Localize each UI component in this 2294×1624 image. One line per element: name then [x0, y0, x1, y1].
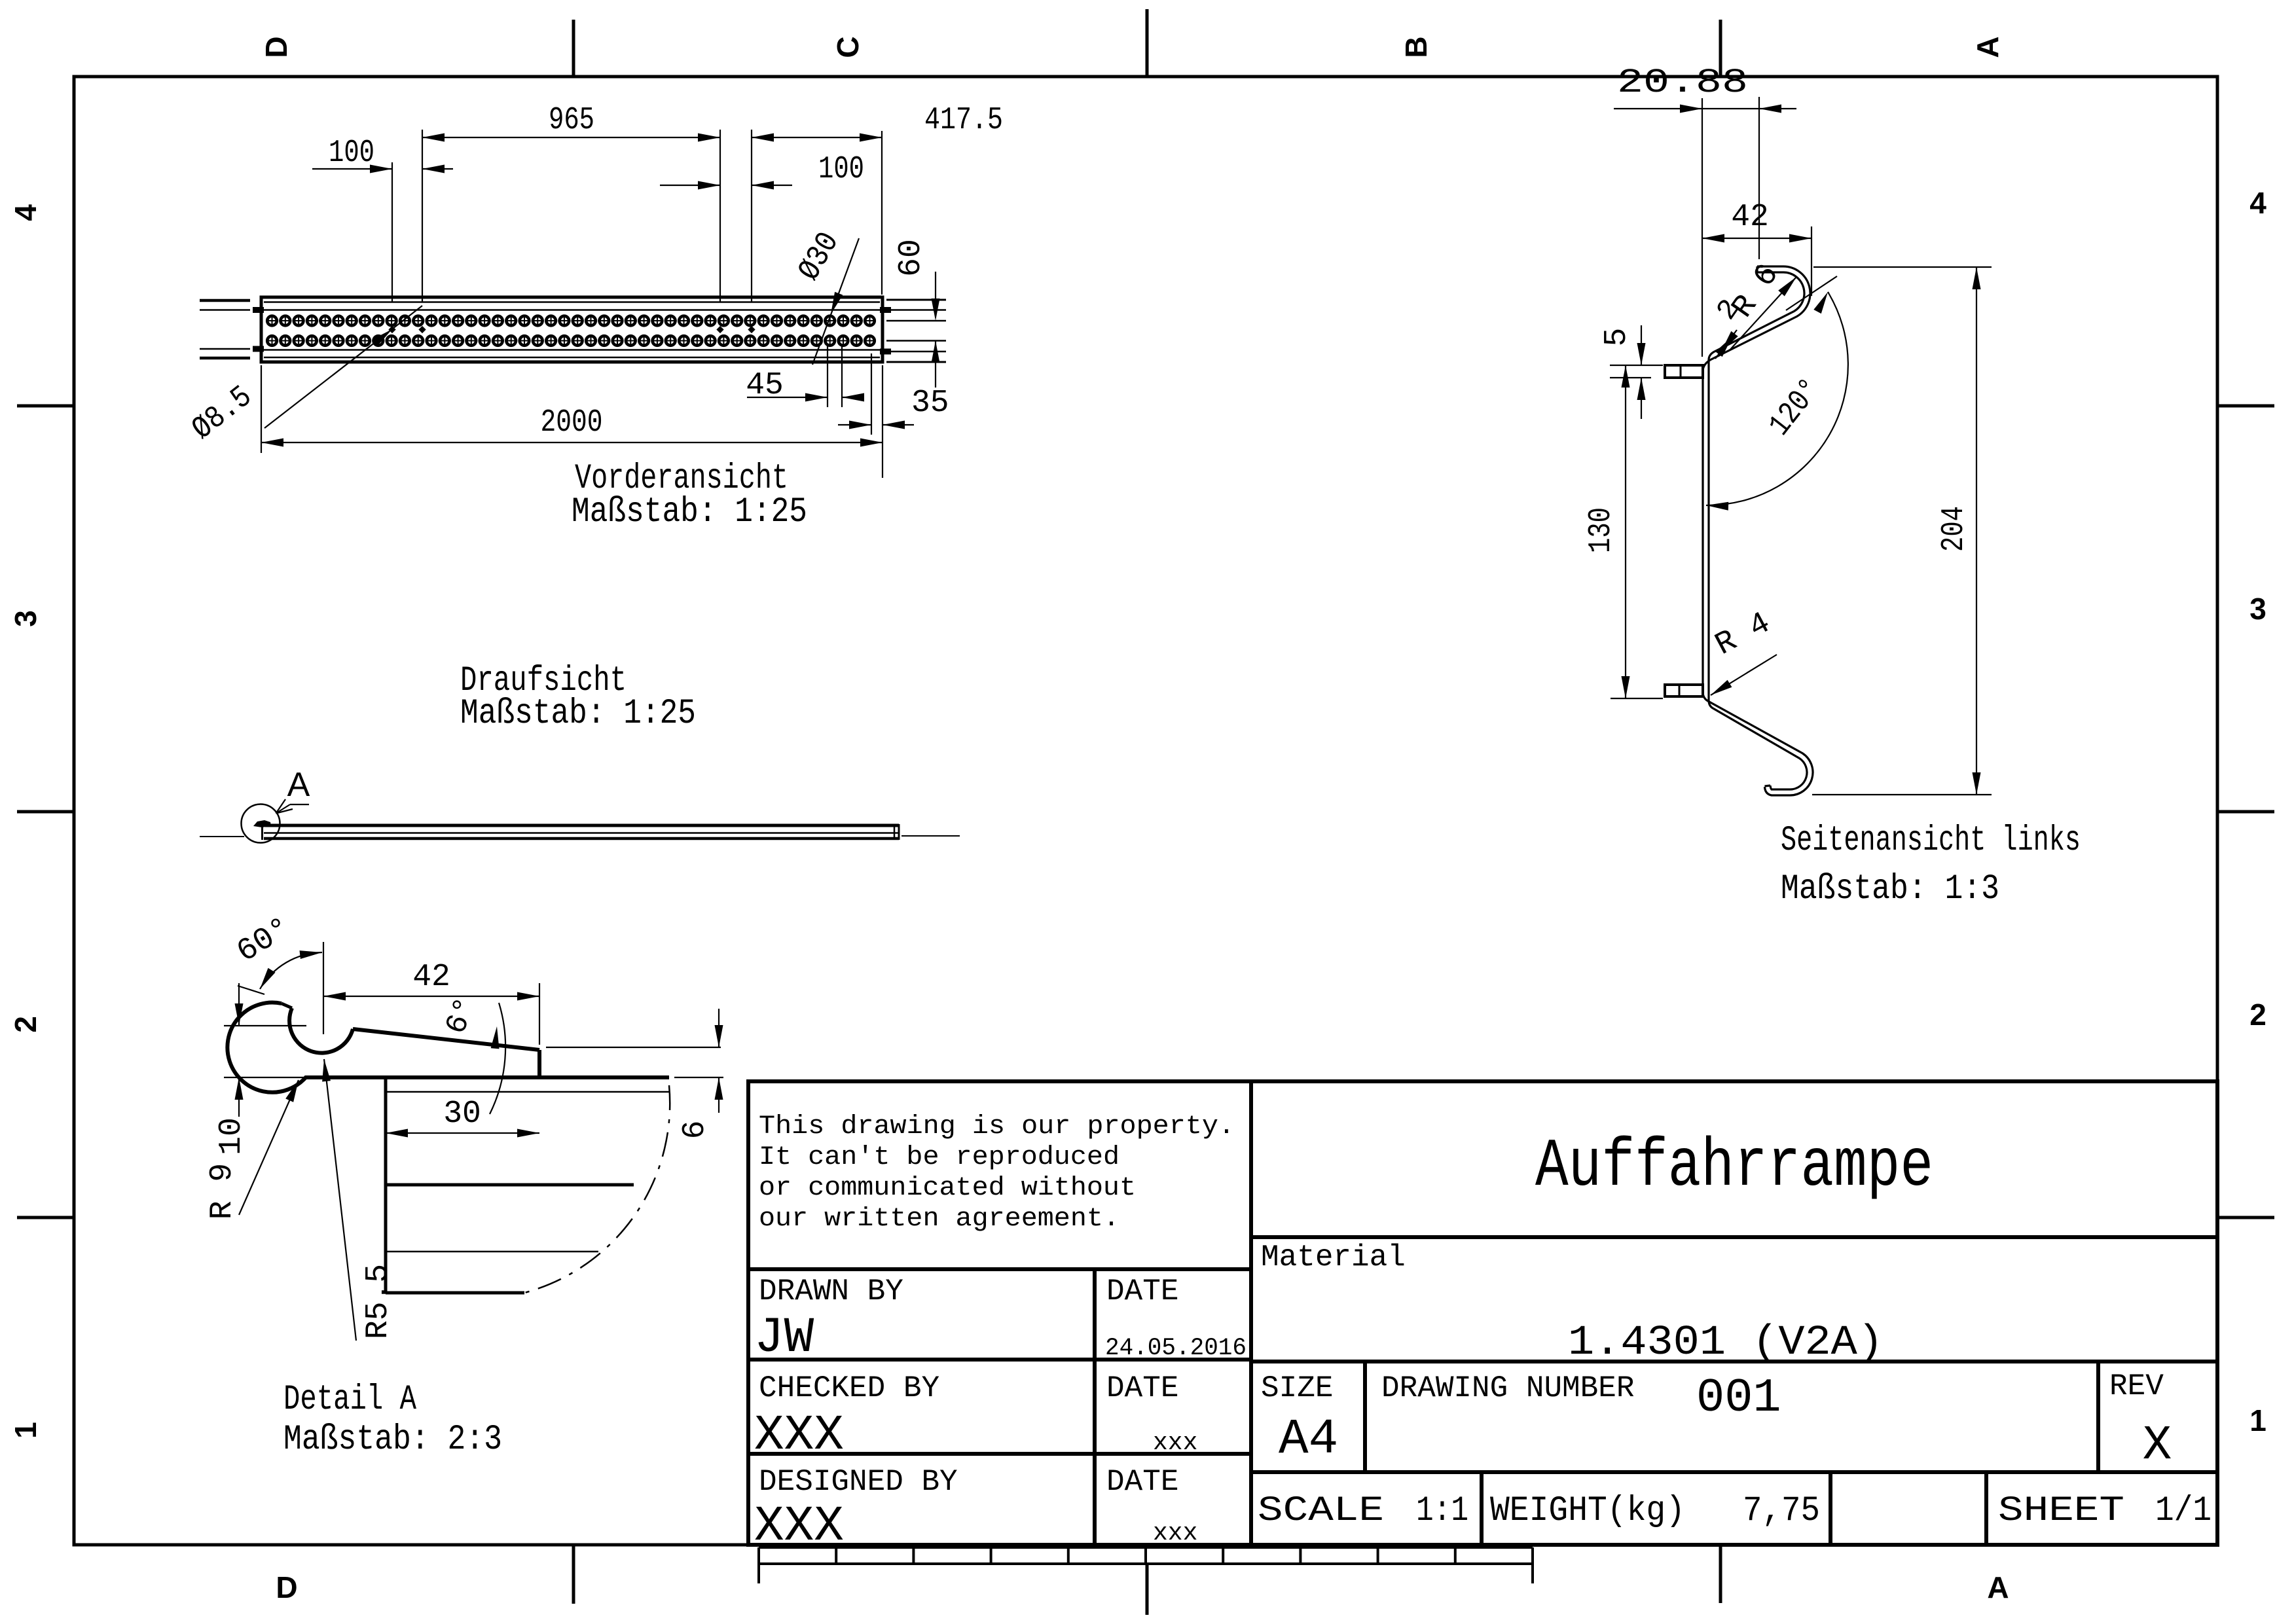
dimension 204: [1812, 267, 1992, 795]
svg-text:10: 10: [214, 1117, 249, 1155]
top view hook end blob: [253, 820, 271, 827]
svg-text:R 9: R 9: [205, 1163, 240, 1219]
rail lines right of strip: [880, 300, 946, 362]
leader R9: [205, 1080, 299, 1219]
svg-text:60: 60: [894, 239, 929, 277]
zone tick top C/B: [1146, 9, 1149, 77]
svg-text:Maßstab: 1:25: Maßstab: 1:25: [572, 492, 807, 532]
dimension 120 degrees: [1706, 276, 1848, 511]
svg-text:C: C: [831, 36, 865, 58]
svg-text:D: D: [276, 1570, 297, 1604]
svg-text:or communicated without: or communicated without: [759, 1174, 1136, 1203]
zone tick top B/A: [1719, 20, 1722, 77]
dimension 100 left: [312, 135, 453, 173]
zone tick right 2/1: [2217, 1216, 2274, 1219]
svg-text:130: 130: [1584, 507, 1619, 553]
svg-text:Detail A: Detail A: [283, 1380, 416, 1420]
svg-text:SIZE: SIZE: [1261, 1371, 1333, 1405]
svg-text:DATE: DATE: [1106, 1465, 1178, 1499]
dimension 6: [546, 1009, 723, 1139]
svg-text:XXX: XXX: [754, 1407, 844, 1464]
dimension 5: [1599, 325, 1663, 419]
svg-text:2: 2: [9, 1016, 43, 1033]
svg-text:45: 45: [746, 368, 784, 403]
svg-text:It can't be reproduced: It can't be reproduced: [759, 1143, 1120, 1172]
metric reference ruler: [759, 1547, 1533, 1583]
svg-text:30: 30: [443, 1096, 481, 1132]
top view bar: [263, 824, 900, 840]
svg-text:X: X: [2143, 1418, 2172, 1473]
detail A callout arrow: [276, 799, 310, 814]
svg-text:2: 2: [2249, 998, 2267, 1032]
svg-text:DATE: DATE: [1106, 1371, 1178, 1405]
leader diameter 8.5: [186, 306, 422, 448]
zone tick right 3/2: [2217, 810, 2274, 814]
svg-text:001: 001: [1696, 1371, 1781, 1425]
hole column center dots: [388, 326, 755, 333]
svg-text:R5.5: R5.5: [361, 1264, 396, 1339]
svg-text:1: 1: [2249, 1403, 2267, 1437]
side view profile: [1703, 266, 1813, 795]
svg-text:24.05.2016: 24.05.2016: [1105, 1335, 1247, 1362]
svg-text:SHEET: SHEET: [1998, 1491, 2124, 1531]
svg-text:204: 204: [1937, 506, 1972, 552]
zone tick bottom B/A: [1719, 1547, 1722, 1603]
svg-text:A: A: [1987, 1570, 2009, 1604]
svg-text:REV: REV: [2109, 1369, 2164, 1403]
svg-text:JW: JW: [754, 1310, 814, 1366]
svg-text:3: 3: [2249, 592, 2267, 626]
svg-text:xxx: xxx: [1153, 1429, 1197, 1457]
dimension 45: [746, 345, 864, 407]
svg-text:1: 1: [9, 1422, 43, 1439]
svg-text:B: B: [1399, 36, 1433, 58]
detail A hook center line: [323, 942, 324, 1034]
zone tick bottom C/B: [1146, 1564, 1149, 1615]
dimension 20.88: [1614, 63, 1796, 357]
title block grid: [748, 1081, 2217, 1545]
svg-text:35: 35: [911, 386, 949, 421]
svg-text:20.88: 20.88: [1617, 63, 1748, 102]
svg-text:5: 5: [1599, 328, 1635, 347]
svg-text:xxx: xxx: [1153, 1519, 1197, 1547]
dimension 417.5: [752, 103, 1003, 142]
svg-text:DATE: DATE: [1106, 1274, 1178, 1308]
dimension 42 detail: [323, 960, 539, 1045]
svg-text:CHECKED BY: CHECKED BY: [759, 1371, 939, 1405]
svg-text:A: A: [1971, 36, 2005, 58]
leader R4: [1710, 605, 1777, 695]
svg-text:Maßstab: 2:3: Maßstab: 2:3: [283, 1420, 502, 1460]
zone tick right 4/3: [2217, 405, 2274, 408]
svg-text:SCALE: SCALE: [1258, 1491, 1384, 1531]
dimension 10: [214, 983, 306, 1155]
svg-text:Maßstab: 1:3: Maßstab: 1:3: [1781, 869, 1999, 909]
svg-text:1/1: 1/1: [2155, 1491, 2212, 1531]
svg-text:6: 6: [678, 1121, 713, 1140]
svg-text:This drawing is our property.: This drawing is our property.: [759, 1112, 1235, 1142]
dimension 6 degrees: [439, 993, 505, 1114]
svg-text:DESIGNED BY: DESIGNED BY: [759, 1465, 958, 1499]
leader diameter 30: [792, 226, 859, 365]
dimension 42 side: [1702, 200, 1812, 296]
svg-text:417.5: 417.5: [924, 103, 1003, 138]
svg-text:Seitenansicht links: Seitenansicht links: [1781, 821, 2081, 861]
svg-text:1:1: 1:1: [1416, 1491, 1468, 1531]
svg-text:A: A: [287, 766, 310, 804]
svg-text:2000: 2000: [541, 405, 603, 441]
svg-text:A4: A4: [1279, 1411, 1338, 1468]
detail A lower section: [386, 1077, 669, 1293]
svg-text:7,75: 7,75: [1743, 1491, 1820, 1531]
svg-text:our written agreement.: our written agreement.: [759, 1204, 1120, 1234]
zone tick left 2/1: [17, 1216, 74, 1219]
dimension 2000: [261, 365, 883, 478]
svg-text:1.4301 (V2A): 1.4301 (V2A): [1568, 1320, 1884, 1367]
svg-text:DRAWING NUMBER: DRAWING NUMBER: [1381, 1371, 1634, 1405]
svg-text:WEIGHT(kg): WEIGHT(kg): [1490, 1491, 1685, 1531]
side view weld tabs: [1665, 365, 1703, 696]
svg-text:DRAWN BY: DRAWN BY: [759, 1274, 903, 1308]
front view perforation holes: [266, 315, 876, 348]
svg-text:Material: Material: [1261, 1240, 1406, 1274]
svg-text:Maßstab: 1:25: Maßstab: 1:25: [460, 694, 696, 734]
leader R6 and thickness 2: [1711, 258, 1796, 359]
dimension 965: [422, 103, 720, 142]
detail A wedge: [353, 1029, 539, 1077]
svg-text:42: 42: [1731, 200, 1769, 235]
leader R5.5: [322, 1059, 396, 1341]
top view center line: [200, 836, 244, 837]
dimension 35: [838, 353, 949, 435]
extension lines above strip: [392, 130, 882, 302]
zone tick left 3/2: [17, 810, 74, 814]
svg-text:965: 965: [549, 103, 594, 138]
svg-text:4: 4: [2249, 186, 2267, 220]
front view strip outline: [261, 297, 883, 362]
detail A break arc: [524, 1085, 670, 1293]
svg-text:100: 100: [818, 152, 864, 187]
svg-text:3: 3: [9, 610, 43, 627]
svg-text:42: 42: [412, 960, 450, 995]
svg-text:Auffahrrampe: Auffahrrampe: [1535, 1128, 1933, 1206]
svg-text:100: 100: [329, 135, 374, 171]
detail A circle: [242, 804, 280, 843]
svg-text:D: D: [259, 36, 293, 58]
zone tick bottom D/C: [572, 1545, 575, 1604]
dimension 60 degrees: [231, 911, 322, 994]
zone tick left 4/3: [17, 405, 74, 408]
dimension 130: [1584, 365, 1663, 698]
detail A hook curl: [227, 1003, 669, 1092]
rail lines left of strip: [200, 300, 264, 358]
dimension 60: [894, 239, 940, 388]
zone tick top D/C: [572, 20, 575, 77]
dimension 30: [386, 1096, 539, 1138]
dimension 100 right: [660, 152, 864, 190]
property note text: [759, 1112, 1235, 1234]
svg-text:4: 4: [9, 204, 43, 221]
